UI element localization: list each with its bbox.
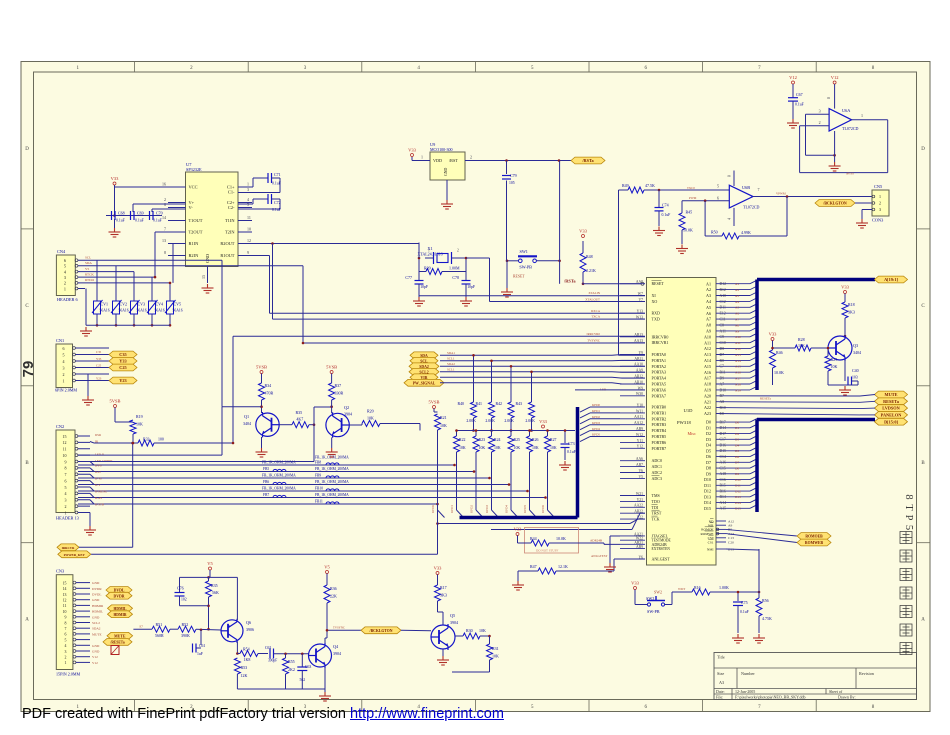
svg-text:6: 6: [65, 478, 67, 483]
svg-text:4: 4: [728, 218, 732, 220]
wire Q1 collector node to LED row: [222, 406, 262, 408]
svg-text:2: 2: [879, 201, 881, 206]
svg-text:D6: D6: [706, 454, 711, 459]
svg-text:A19: A19: [735, 388, 741, 392]
svg-text:/BCKLGTON: /BCKLGTON: [369, 629, 393, 633]
net flag SDA2: [409, 363, 439, 370]
svg-text:103: 103: [852, 376, 858, 380]
resistor R46: [772, 341, 774, 351]
connector CN5 CON3: [872, 184, 889, 223]
svg-text:CN4: CN4: [57, 249, 66, 254]
svg-text:C35: C35: [96, 350, 102, 354]
svg-text:TDI: TDI: [652, 505, 659, 510]
svg-text:10pF: 10pF: [467, 285, 475, 289]
svg-text:3K3: 3K3: [440, 593, 447, 598]
svg-text:C8: C8: [720, 323, 725, 327]
svg-text:C35: C35: [119, 352, 126, 357]
keypad row wires from CN2: [78, 464, 547, 506]
transistor Q4 3904: [309, 643, 332, 668]
wire C76 bottom join: [180, 605, 209, 607]
wire MUTE flag: [860, 395, 875, 397]
svg-text:NMI: NMI: [707, 547, 714, 551]
svg-text:A11: A11: [720, 329, 726, 333]
wires R40-R43 bottoms to rail: [472, 418, 533, 432]
svg-text:470R: 470R: [265, 391, 274, 396]
svg-text:TL072CD: TL072CD: [743, 205, 760, 210]
svg-text:PORTA4: PORTA4: [652, 376, 667, 381]
svg-text:C20: C20: [728, 540, 734, 544]
wire CN2 pin rows join keypad rows: [90, 462, 94, 505]
capacitor C72 with loop: [238, 194, 281, 212]
ground under U6A: [829, 162, 841, 171]
svg-text:SDA2: SDA2: [92, 627, 101, 631]
net flag Y23: [109, 377, 137, 384]
capacitor C79 reset: [506, 161, 508, 175]
svg-text:D13: D13: [735, 495, 741, 499]
net flag HDMIL: [108, 605, 133, 612]
svg-text:390K: 390K: [181, 633, 190, 638]
svg-text:3404: 3404: [243, 421, 251, 426]
net flag A bus: [875, 276, 908, 283]
ferrite bead row texts and coils: [262, 461, 349, 505]
svg-text:10K: 10K: [492, 654, 499, 659]
svg-text:Drawn By:: Drawn By:: [838, 695, 856, 700]
svg-text:R29: R29: [831, 357, 838, 362]
svg-text:A: A: [25, 618, 29, 623]
svg-text:D0: D0: [706, 420, 711, 425]
svg-text:ANLGEST: ANLGEST: [652, 556, 671, 561]
svg-text:CN3: CN3: [56, 569, 64, 574]
connector CN1 6PIN: [55, 338, 77, 393]
wire RXD long: [270, 312, 646, 314]
ground under CN5: [856, 219, 868, 228]
capacitor C62: [270, 649, 274, 659]
svg-text:R53: R53: [241, 665, 248, 670]
wire R1OUT down: [238, 255, 270, 257]
svg-text:XTALOUT: XTALOUT: [585, 297, 600, 301]
svg-text:10K: 10K: [440, 423, 447, 428]
footer fineprint banner: [22, 706, 504, 722]
resistor R36: [326, 574, 328, 586]
wire TVSYNC long: [303, 342, 645, 344]
svg-text:8: 8: [164, 250, 166, 255]
Q1 emitter ground: [261, 437, 263, 448]
svg-text:V33: V33: [408, 148, 416, 153]
resistor R28: [773, 347, 796, 349]
svg-text:KPD5: KPD5: [592, 433, 600, 437]
svg-text:SCL1: SCL1: [447, 356, 455, 360]
svg-text:13: 13: [162, 238, 166, 243]
svg-text:R16: R16: [694, 585, 701, 590]
column R21 long vertical: [437, 430, 439, 524]
svg-text:TXC0: TXC0: [687, 186, 695, 190]
svg-text:R48: R48: [586, 254, 593, 259]
svg-text:10K: 10K: [479, 628, 486, 633]
svg-text:7: 7: [65, 472, 67, 477]
wire crystal to XO: [466, 257, 490, 259]
svg-text:A7: A7: [735, 318, 739, 322]
svg-text:A11: A11: [704, 340, 711, 345]
svg-text:2: 2: [470, 155, 472, 160]
resistor R55: [285, 654, 287, 658]
svg-text:FB_1K_OHM_200MA: FB_1K_OHM_200MA: [262, 487, 296, 491]
svg-text:4K7: 4K7: [296, 417, 303, 422]
svg-text:16: 16: [162, 182, 166, 187]
svg-text:T: T: [903, 504, 914, 511]
U6B pin 8 stub: [733, 171, 735, 187]
svg-text:SW-PB: SW-PB: [519, 265, 532, 270]
svg-text:A9: A9: [735, 329, 739, 333]
svg-text:FB9: FB9: [315, 474, 321, 478]
keypad column R22: [456, 431, 458, 437]
svg-text:12: 12: [247, 238, 251, 243]
svg-text:B7: B7: [720, 394, 725, 398]
svg-text:5: 5: [65, 485, 67, 490]
svg-text:105: 105: [509, 181, 515, 185]
capacitor C77: [418, 272, 420, 281]
svg-text:5: 5: [64, 264, 66, 269]
wire POWER_KEY long: [91, 553, 438, 555]
svg-text:PORTB0: PORTB0: [652, 405, 667, 410]
resistor R54 horizontal: [237, 653, 240, 655]
svg-text:HDMIR: HDMIR: [92, 604, 104, 608]
svg-text:7: 7: [164, 227, 166, 232]
Q2 emitter ground: [331, 437, 333, 448]
svg-text:C12: C12: [720, 300, 726, 304]
bus thick A horizontal: [757, 278, 875, 282]
capacitor C63: [301, 654, 303, 667]
svg-text:R28: R28: [798, 337, 805, 342]
ground under C74: [653, 227, 665, 236]
svg-text:DVDR: DVDR: [92, 587, 102, 591]
svg-text:2.00K: 2.00K: [525, 419, 535, 423]
svg-text:12: 12: [63, 440, 67, 445]
svg-text:3904: 3904: [333, 651, 341, 656]
wire IR vertical: [232, 336, 234, 443]
svg-text:A21: A21: [704, 399, 711, 404]
svg-text:R37: R37: [335, 383, 342, 388]
svg-text:RXCA: RXCA: [591, 309, 601, 313]
wire T2OUT to CN4 row: [155, 231, 186, 233]
net flag POWER_KEY: [58, 551, 91, 558]
svg-text:/BCKLGTON: /BCKLGTON: [822, 202, 847, 206]
ground under Q4: [319, 692, 331, 701]
svg-text:R31: R31: [492, 646, 499, 651]
svg-text:D7: D7: [720, 353, 725, 357]
svg-text:A5: A5: [735, 306, 739, 310]
U1 right control rows: [701, 518, 735, 551]
svg-text:POWER_KEY: POWER_KEY: [64, 553, 86, 557]
svg-text:C79: C79: [510, 173, 517, 178]
svg-text:R18: R18: [848, 302, 855, 307]
svg-text:2: 2: [64, 281, 66, 286]
resistor R35 mute: [208, 577, 210, 581]
svg-text:PORTB3: PORTB3: [652, 422, 667, 427]
wire V- branch: [152, 208, 186, 210]
ground under R45: [676, 245, 688, 254]
svg-text:R21: R21: [440, 415, 447, 420]
svg-text:2.00K: 2.00K: [466, 419, 476, 423]
svg-text:R51: R51: [156, 622, 163, 627]
keypad column R25: [510, 431, 512, 437]
svg-text:A23: A23: [704, 411, 711, 416]
svg-text:D15: D15: [720, 449, 727, 453]
resistor R53 vertical: [234, 658, 240, 674]
svg-text:C10: C10: [720, 341, 726, 345]
svg-text:14: 14: [162, 215, 166, 220]
svg-text:1: 1: [861, 113, 863, 118]
svg-text:R40: R40: [458, 402, 465, 406]
svg-text:SCL2: SCL2: [92, 621, 100, 625]
svg-text:A13: A13: [735, 353, 741, 357]
svg-text:V33: V33: [514, 527, 522, 532]
svg-text:15PIN 2.0MM: 15PIN 2.0MM: [56, 672, 80, 677]
svg-text:56A16: 56A16: [155, 309, 165, 313]
svg-text:TVSYNC: TVSYNC: [587, 339, 600, 343]
svg-text:PORTB2: PORTB2: [652, 416, 667, 421]
svg-text:TXD: TXD: [652, 317, 660, 322]
svg-text:ROMOEB: ROMOEB: [805, 535, 823, 539]
svg-text:R20: R20: [367, 409, 374, 414]
svg-text:Q4: Q4: [333, 644, 339, 649]
wire TCK net from keypad area: [438, 523, 631, 525]
svg-text:56A16: 56A16: [119, 309, 129, 313]
svg-text:10.0K: 10.0K: [774, 370, 784, 375]
svg-text:PORTA7: PORTA7: [652, 393, 667, 398]
svg-text:5: 5: [717, 184, 719, 189]
wire SW1 left to ground: [507, 260, 518, 262]
svg-text:V33: V33: [434, 566, 442, 571]
svg-text:D3: D3: [706, 437, 711, 442]
svg-text:C71: C71: [274, 172, 281, 177]
svg-text:SDA2: SDA2: [447, 362, 455, 366]
svg-text:DSR: DSR: [95, 433, 102, 437]
resistor R31: [489, 636, 491, 644]
U6A pin 4 to ground: [834, 131, 836, 162]
svg-text:A1: A1: [735, 282, 739, 286]
svg-text:RESET: RESET: [652, 281, 665, 286]
svg-text:100: 100: [158, 438, 164, 442]
svg-text:10: 10: [63, 610, 67, 614]
bus thick A vertical: [755, 280, 759, 391]
svg-text:Number: Number: [741, 671, 755, 676]
capacitor C67: [792, 84, 794, 98]
resistor R43: [529, 402, 535, 418]
svg-text:102: 102: [181, 598, 187, 602]
svg-text:C25: C25: [96, 364, 102, 368]
svg-text:GND: GND: [92, 650, 100, 654]
svg-text:TXCA: TXCA: [591, 315, 600, 319]
wire C79 down to SW1 node: [506, 181, 508, 261]
svg-text:B12: B12: [720, 288, 726, 292]
svg-text:56A16: 56A16: [173, 309, 183, 313]
svg-text:A17: A17: [735, 377, 741, 381]
net flag HDMIR: [108, 611, 133, 618]
svg-text:R35: R35: [296, 410, 303, 415]
svg-text:FB_1K_OHM_200MA: FB_1K_OHM_200MA: [315, 467, 349, 471]
svg-text:4.75K: 4.75K: [762, 616, 772, 621]
svg-text:C1-: C1-: [228, 190, 235, 195]
svg-text:A6: A6: [706, 311, 711, 316]
svg-text:C7: C7: [720, 365, 725, 369]
svg-text:A16: A16: [735, 371, 741, 375]
svg-text:V33: V33: [539, 419, 547, 424]
svg-text:Q6: Q6: [246, 620, 251, 625]
svg-text:PORTB4: PORTB4: [652, 428, 667, 433]
wire IRRCVR0 long: [233, 335, 645, 337]
resistor R40: [471, 402, 477, 418]
svg-text:A3: A3: [706, 293, 711, 298]
svg-text:D12: D12: [704, 489, 711, 494]
svg-text:3K3: 3K3: [848, 310, 855, 315]
switch SW2: [646, 590, 665, 615]
U7 GND pin 15 stub: [207, 267, 209, 284]
red nets at flag stack: [447, 351, 455, 372]
red capacitor C81: [111, 646, 119, 655]
svg-text:GND: GND: [92, 644, 100, 648]
svg-text:1.00M: 1.00M: [449, 266, 460, 271]
svg-text:KPD2: KPD2: [470, 505, 474, 513]
svg-text:B8: B8: [720, 359, 725, 363]
net flag PW_SIGNAL: [404, 379, 444, 386]
svg-text:V5: V5: [324, 565, 330, 570]
svg-text:A13: A13: [704, 352, 711, 357]
U6A pin3 ground loop: [806, 114, 836, 156]
svg-text:C73: C73: [568, 441, 575, 446]
svg-text:D15: D15: [735, 507, 741, 511]
svg-text:2: 2: [457, 249, 459, 253]
resistor R17: [437, 575, 439, 586]
svg-text:A17: A17: [704, 376, 711, 381]
svg-text:D9: D9: [706, 471, 711, 476]
svg-text:PORTA1: PORTA1: [652, 358, 667, 363]
svg-text:6: 6: [64, 258, 66, 263]
svg-text:MUTE: MUTE: [114, 634, 126, 638]
IC U7 SP3232E: [186, 162, 239, 267]
svg-text:D1: D1: [706, 425, 711, 430]
svg-text:D10: D10: [720, 388, 727, 392]
svg-text:1: 1: [247, 182, 249, 187]
svg-text:PW_SIGNAL: PW_SIGNAL: [413, 381, 436, 385]
op-amp U6B TL072CD: [729, 185, 759, 210]
svg-text:A20: A20: [704, 393, 711, 398]
net flag Y33: [109, 358, 137, 365]
resistor R16: [692, 589, 710, 595]
wire SW2 to R16: [634, 590, 636, 605]
U1 right D-bus pin rows: [704, 419, 757, 511]
svg-text:0.1uF: 0.1uF: [740, 610, 749, 614]
svg-text:FB11: FB11: [315, 500, 323, 504]
svg-text:11: 11: [63, 604, 67, 608]
ground under Q3: [828, 384, 858, 386]
svg-text:SW-PB: SW-PB: [647, 609, 660, 614]
ground under CN2: [78, 512, 90, 514]
svg-text:D14: D14: [720, 426, 727, 430]
capacitor C75: [737, 592, 739, 601]
svg-text:V33: V33: [841, 285, 849, 290]
svg-text:E7: E7: [140, 625, 144, 629]
svg-text:A15: A15: [720, 507, 727, 511]
ground under SW1: [501, 288, 513, 297]
resistor R34: [261, 374, 263, 384]
svg-text:B17: B17: [720, 420, 726, 424]
net flag SCL2: [409, 368, 439, 375]
svg-text:B14: B14: [720, 495, 726, 499]
CN1 red net names: [96, 350, 102, 381]
svg-text:11: 11: [247, 215, 251, 220]
svg-text:ADC3: ADC3: [652, 476, 662, 481]
svg-text:FB7: FB7: [263, 493, 269, 497]
svg-text:D8: D8: [720, 347, 725, 351]
svg-text:T2IN: T2IN: [225, 230, 235, 235]
svg-text:K-D: K-D: [95, 470, 101, 474]
svg-text:R52: R52: [182, 622, 189, 627]
svg-text:A11: A11: [735, 341, 741, 345]
svg-text:C61: C61: [199, 644, 205, 648]
varistor CV3: [129, 300, 147, 314]
bus thick D horizontal: [757, 418, 875, 422]
svg-text:HEADER 13: HEADER 13: [56, 516, 79, 521]
svg-text:R50: R50: [711, 230, 718, 235]
transistor Q6 3906 PNP: [221, 619, 243, 643]
ground under C73: [559, 461, 571, 470]
svg-text:47.5K: 47.5K: [645, 183, 655, 188]
svg-text:6: 6: [63, 346, 65, 351]
svg-text:10K: 10K: [514, 446, 521, 450]
wire SDA net vertical: [302, 266, 304, 343]
CN5 pin3 ground wire: [862, 209, 872, 211]
svg-text:0.1uF: 0.1uF: [272, 208, 281, 212]
net flag RSTa top: [571, 157, 605, 164]
svg-text:HDMIL: HDMIL: [114, 607, 127, 611]
svg-text:PWM: PWM: [689, 196, 697, 200]
svg-text:ADR24B: ADR24B: [652, 542, 667, 547]
svg-text:CV3: CV3: [138, 302, 146, 307]
wire LED-R row: [78, 454, 222, 456]
svg-text:RESETa: RESETa: [760, 397, 772, 401]
rotated KPD red labels: [431, 505, 545, 513]
svg-text:PORTA3: PORTA3: [652, 370, 667, 375]
capacitor C70: [150, 211, 154, 220]
svg-text:U6A: U6A: [842, 108, 851, 113]
svg-text:D[15:0]: D[15:0]: [884, 419, 898, 424]
transistor Q3 3404: [828, 335, 852, 361]
svg-text:D: D: [25, 147, 29, 152]
svg-text:330R: 330R: [335, 391, 344, 396]
svg-text:7: 7: [758, 187, 760, 192]
svg-text:R36: R36: [330, 586, 337, 591]
svg-text:10K: 10K: [532, 446, 539, 450]
svg-text:KPD3: KPD3: [485, 505, 489, 513]
svg-text:CN2: CN2: [56, 424, 64, 429]
svg-text:14: 14: [63, 587, 67, 591]
net flag D bus: [875, 418, 908, 425]
svg-text:D7: D7: [735, 461, 739, 465]
svg-text:2K2: 2K2: [288, 667, 295, 672]
U7 left pin stubs with numbers: [162, 182, 186, 256]
CV bank column wires: [96, 260, 172, 326]
svg-text:B10: B10: [720, 406, 726, 410]
svg-text:WDT: WDT: [678, 587, 685, 591]
svg-text:0.1uF: 0.1uF: [153, 219, 162, 223]
wire SW1 right to reset net: [537, 260, 560, 262]
wire V+ branch: [133, 203, 186, 205]
svg-text:CN1: CN1: [56, 338, 64, 343]
net flag PANELON: [875, 412, 908, 419]
svg-text:0.1uF: 0.1uF: [795, 103, 804, 107]
svg-text:FB_1K_OHM_200MA: FB_1K_OHM_200MA: [315, 480, 349, 484]
svg-text:KPD4: KPD4: [592, 427, 600, 431]
